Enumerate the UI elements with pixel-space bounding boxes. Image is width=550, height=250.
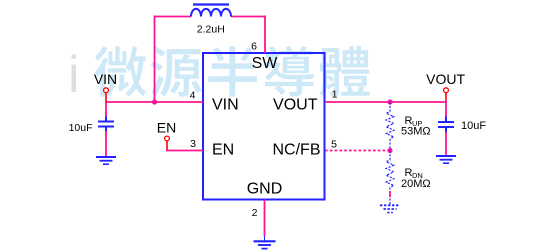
svg-text:SW: SW (252, 55, 279, 72)
node junction VIN/inductor (152, 99, 157, 104)
watermark char 半 (208, 46, 257, 96)
terminal VIN circle (104, 88, 109, 93)
ground below pin 2 (254, 236, 276, 249)
svg-text:2.2uH: 2.2uH (197, 24, 225, 36)
watermark text 微源半導體 (95, 46, 370, 97)
svg-text:i: i (68, 46, 80, 104)
svg-text:4: 4 (190, 89, 196, 101)
wire top rail right segment (231, 16, 266, 18)
wire EN to pin 3 (166, 150, 203, 152)
capacitor C2 (438, 117, 454, 133)
resistor RUP (386, 102, 394, 151)
wire C2 to ground (445, 132, 447, 156)
watermark char 體 (320, 46, 370, 97)
watermark char 微 (95, 46, 147, 97)
svg-text:10uF: 10uF (461, 120, 486, 132)
wire VOUT to C2 (445, 101, 447, 117)
wire RDN to ground (389, 191, 391, 197)
svg-text:3: 3 (190, 138, 196, 150)
resistor RDN (386, 151, 394, 205)
ground below C1 (96, 157, 116, 164)
svg-text:6: 6 (251, 40, 257, 52)
wire pin 2 to ground (264, 200, 266, 237)
wire VOUT rail (325, 101, 446, 103)
capacitor C1 (98, 117, 114, 132)
svg-text:2: 2 (252, 207, 258, 219)
wire VIN to C1 (105, 102, 107, 117)
wire top rail left segment (155, 16, 192, 18)
svg-text:53MΩ: 53MΩ (401, 126, 431, 138)
inductor L1 coil (191, 9, 231, 17)
watermark char 源 (151, 47, 202, 97)
svg-text:10uF: 10uF (69, 122, 93, 134)
svg-text:EN: EN (157, 119, 176, 135)
node junction RUP (387, 99, 392, 104)
svg-text:VIN: VIN (212, 96, 239, 113)
svg-text:NC/FB: NC/FB (273, 141, 321, 158)
node junction FB (387, 148, 392, 153)
IC U1 body (203, 53, 325, 200)
watermark char 導 (265, 46, 315, 97)
svg-text:5: 5 (331, 139, 337, 151)
wire inductor left vertical (154, 16, 156, 103)
svg-text:VOUT: VOUT (426, 71, 465, 87)
ground below C2 (436, 156, 456, 163)
wire pin 6 vertical (264, 16, 266, 54)
wire VIN terminal stub (105, 93, 107, 102)
inductor L1 core bar (193, 3, 229, 5)
terminal VOUT circle (444, 88, 449, 93)
wire VOUT terminal stub (445, 93, 447, 102)
ground below RDN (380, 205, 400, 212)
svg-text:GND: GND (247, 181, 283, 198)
wire NC/FB dashed to FB node (325, 150, 390, 152)
terminal EN circle (165, 136, 170, 141)
svg-text:VOUT: VOUT (273, 96, 318, 113)
svg-text:VIN: VIN (94, 71, 117, 87)
svg-text:EN: EN (212, 141, 234, 158)
wire C1 to ground (105, 131, 107, 157)
svg-text:1: 1 (332, 89, 338, 101)
svg-text:20MΩ: 20MΩ (401, 178, 431, 190)
wire EN terminal stub (166, 141, 168, 151)
wire VIN rail (106, 101, 203, 103)
